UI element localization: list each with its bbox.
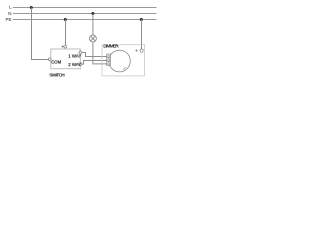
switch S1 box xyxy=(51,49,81,69)
dimmer terminal screw 3 xyxy=(108,63,110,65)
wire switch 2WAY to dimmer terminal 2 xyxy=(82,61,108,65)
switch COM terminal xyxy=(48,58,51,61)
switch earth terminal circle xyxy=(64,45,67,48)
svg-text:DIMMER: DIMMER xyxy=(103,44,119,50)
dimmer knob circle xyxy=(109,50,131,72)
switch 2WAY terminal xyxy=(79,63,82,66)
dimmer terminal strip xyxy=(107,54,111,66)
node junction on N xyxy=(91,12,94,15)
lamp E1 xyxy=(89,35,96,42)
net L line xyxy=(13,7,157,9)
node junction on PE (switch) xyxy=(64,18,67,21)
svg-text:SWITCH: SWITCH xyxy=(49,73,65,79)
wire PE to switch earth terminal xyxy=(65,20,67,46)
svg-text:N: N xyxy=(8,11,11,16)
wire L to switch COM xyxy=(32,8,49,60)
dimmer U1 box xyxy=(102,45,145,76)
dimmer terminal screw 1 xyxy=(108,55,110,57)
svg-text:COM: COM xyxy=(51,60,61,65)
svg-text:2 WAY: 2 WAY xyxy=(68,62,81,67)
node junction on PE (dimmer) xyxy=(140,18,143,21)
switch earth terminal cross mark xyxy=(61,46,63,48)
dimmer terminal screw 2 xyxy=(108,59,110,61)
wire PE to dimmer earth terminal xyxy=(141,20,143,50)
svg-text:L: L xyxy=(9,5,12,10)
switch 1WAY terminal xyxy=(79,51,82,54)
dimmer earth terminal cross mark xyxy=(135,49,137,51)
svg-text:1 WAY: 1 WAY xyxy=(68,54,81,59)
net PE line xyxy=(13,19,157,21)
net N line xyxy=(13,13,157,15)
dimmer name label DIMMER background xyxy=(103,43,120,48)
wire lamp to dimmer terminal 3 xyxy=(93,42,108,64)
svg-text:PE: PE xyxy=(5,17,11,22)
wire N to lamp xyxy=(92,14,94,36)
dimmer knob pointer mark xyxy=(123,67,125,69)
dimmer earth terminal circle xyxy=(140,49,143,52)
node junction on L xyxy=(30,6,33,9)
wire switch 1WAY to dimmer terminal 1 xyxy=(82,53,108,57)
